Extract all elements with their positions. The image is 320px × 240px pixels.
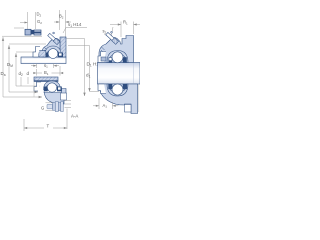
svg-text:T: T <box>47 124 50 129</box>
inner ring blocks upper right <box>109 57 113 62</box>
housing lower right view <box>99 84 138 114</box>
seal marks left dome <box>44 48 47 53</box>
ball left view <box>48 49 58 59</box>
dim B2 above left view <box>54 10 71 37</box>
bearing outer ring upper right <box>107 51 128 63</box>
slot detail part <box>25 29 41 35</box>
svg-text:R1: R1 <box>123 20 128 26</box>
shaft right view <box>98 63 141 85</box>
locking collar hatched left view <box>39 51 46 57</box>
svg-text:B2: B2 <box>59 14 64 20</box>
svg-text:s1: s1 <box>44 63 48 69</box>
housing upper right view <box>99 36 134 63</box>
nipple bracket dim <box>65 101 72 130</box>
svg-text:G2: G2 <box>37 19 42 25</box>
ball A-A <box>47 83 56 92</box>
svg-text:A1: A1 <box>103 103 108 109</box>
dim A1 bottom right <box>93 98 119 109</box>
inner ring blocks left view <box>45 53 49 58</box>
bearing outer ring lower right <box>107 84 128 96</box>
grease nipple A-A <box>47 102 63 112</box>
seal marks right dome <box>101 47 105 53</box>
svg-text:A-A: A-A <box>71 114 78 119</box>
bearing outer ring left view <box>45 46 62 57</box>
bearing outer ring A-A <box>44 81 61 90</box>
dim B1 under left view <box>37 66 61 76</box>
collar box lower right <box>98 84 106 94</box>
grub screw left view <box>47 33 59 45</box>
notch white lower right <box>125 105 132 113</box>
inner ring blocks lower right <box>108 84 112 89</box>
svg-text:G: G <box>41 106 44 111</box>
grub screw right view <box>105 32 118 44</box>
collar step outline left view <box>33 47 40 58</box>
housing body A-A <box>44 89 66 105</box>
hidden flange line over shaft <box>133 63 135 85</box>
svg-text:D2: D2 <box>37 12 42 18</box>
notch white A-A <box>61 93 67 100</box>
collar step outline A-A <box>34 82 41 91</box>
dimension G2/D2 slot detail verticals <box>14 12 36 29</box>
ball lower right <box>112 84 123 95</box>
housing dome left view <box>42 38 60 57</box>
ext line left of A-A <box>33 82 35 97</box>
left dim stack verticals and elbows <box>2 36 46 97</box>
svg-text:s2: s2 <box>103 29 107 35</box>
shaft left view <box>21 57 66 64</box>
ball upper right <box>112 52 123 63</box>
tiny ball at screw tip right <box>111 31 113 33</box>
dim s1 under left view <box>31 64 59 69</box>
inner ring blocks A-A <box>44 87 48 92</box>
tiny ball at screw tip <box>53 32 55 34</box>
flange plate left view <box>60 37 66 57</box>
flange bar hatched A-A <box>34 77 58 82</box>
ext line right of foot <box>138 84 140 112</box>
right view dim corners <box>67 39 100 97</box>
svg-text:B1: B1 <box>44 70 49 76</box>
dim T bottom <box>24 119 67 131</box>
dim R1 top right <box>110 22 140 38</box>
collar box upper right <box>98 52 106 63</box>
